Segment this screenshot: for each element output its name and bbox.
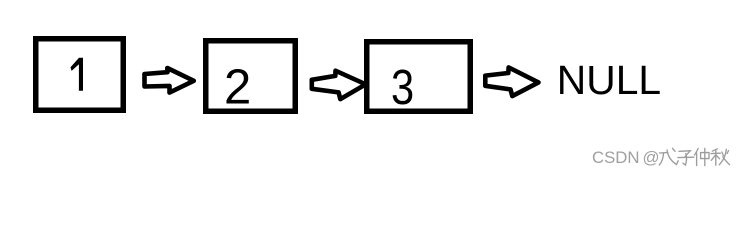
node 1 value "1" — [71, 58, 84, 91]
svg-text:3: 3 — [391, 60, 414, 115]
node 1 box — [36, 39, 124, 111]
node 3 box — [367, 42, 471, 112]
svg-text:2: 2 — [224, 60, 251, 114]
watermark hanzi 子 — [678, 151, 694, 165]
wire arrow 1 (node 1 to node 2) — [145, 68, 194, 93]
svg-text:@: @ — [643, 148, 660, 167]
watermark hanzi 仲 — [694, 148, 709, 165]
node 2 box — [206, 41, 296, 112]
svg-text:CSDN: CSDN — [592, 148, 640, 167]
wire arrow 2 (node 2 to node 3) — [312, 71, 366, 99]
watermark hanzi 戊 — [659, 148, 678, 165]
svg-text:NULL: NULL — [557, 57, 661, 103]
watermark hanzi 秋 — [711, 149, 730, 165]
wire arrow 3 (node 3 to NULL) — [485, 67, 538, 96]
